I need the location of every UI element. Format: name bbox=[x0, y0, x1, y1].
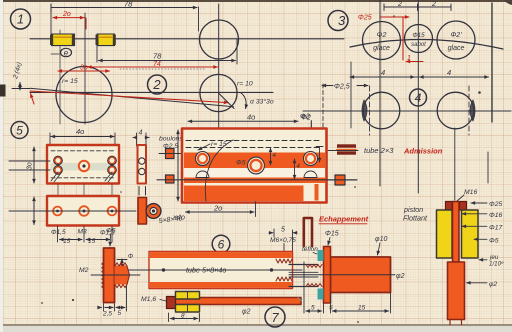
label r=15 with arrow bbox=[198, 141, 227, 150]
label phi15 bbox=[325, 231, 339, 246]
svg-text:3o: 3o bbox=[80, 65, 88, 72]
hatched pocket left bbox=[362, 100, 367, 121]
svg-text:15: 15 bbox=[358, 305, 366, 312]
cylinder surface arc bbox=[350, 39, 503, 49]
port hole center bbox=[248, 157, 265, 174]
radius construction curve bbox=[205, 140, 233, 201]
svg-text:φ10: φ10 bbox=[375, 236, 387, 243]
bore lines bbox=[289, 272, 318, 277]
svg-text:Φ2: Φ2 bbox=[377, 32, 387, 39]
svg-text:4: 4 bbox=[415, 91, 422, 105]
piston rod thin bbox=[453, 202, 460, 263]
label boulons phi2,5 bbox=[159, 136, 183, 151]
view label 6 bbox=[212, 235, 230, 259]
bracket side view bbox=[138, 198, 147, 225]
label phi2,5 bbox=[322, 84, 368, 91]
dashed axis x369 bbox=[369, 86, 371, 135]
dimension 4 bbox=[133, 130, 149, 147]
centerline vertical x218 bbox=[218, 4, 220, 135]
svg-text:Φ15: Φ15 bbox=[325, 231, 339, 238]
exhaust port section bbox=[304, 218, 312, 246]
thread zigzag top bbox=[276, 259, 292, 263]
construction vertical x60 bbox=[59, 30, 61, 124]
lower band bbox=[184, 178, 325, 184]
gland body bbox=[331, 257, 391, 293]
svg-text:Φ1,5: Φ1,5 bbox=[51, 229, 66, 236]
svg-text:Φ25: Φ25 bbox=[358, 15, 372, 22]
corner hatch right bbox=[105, 172, 115, 182]
label M16 leader bbox=[457, 189, 477, 201]
guide block top bbox=[176, 292, 200, 300]
rocker circle bbox=[200, 74, 237, 111]
thread zigzag bottom bbox=[276, 277, 292, 281]
small gap dimension left bbox=[12, 83, 30, 91]
svg-text:Φ: Φ bbox=[128, 254, 133, 260]
centerline screw bbox=[91, 274, 140, 276]
nut right bbox=[460, 202, 467, 211]
svg-text:2o: 2o bbox=[213, 204, 222, 213]
bar 5x8 end view bbox=[328, 175, 357, 185]
centerline bottom row bbox=[9, 210, 136, 212]
dimension 20 bbox=[186, 202, 256, 217]
label phi5 leader bbox=[106, 228, 116, 247]
adjusting screw body bbox=[104, 248, 115, 303]
svg-text:φ2: φ2 bbox=[242, 309, 251, 316]
thread top bbox=[306, 265, 322, 268]
bore bump right bbox=[304, 171, 317, 178]
bolt square upper bbox=[159, 149, 181, 159]
label piston flottant bbox=[403, 205, 428, 223]
rod end cap bbox=[167, 297, 176, 309]
svg-text:2: 2 bbox=[431, 1, 436, 8]
svg-text:1/10ᵉ: 1/10ᵉ bbox=[489, 261, 504, 268]
label phi25 bbox=[471, 201, 502, 208]
screws top plate bbox=[54, 156, 117, 174]
svg-text:5: 5 bbox=[16, 124, 23, 138]
svg-text:5: 5 bbox=[329, 305, 333, 312]
dimension 4-4 bbox=[350, 68, 489, 77]
extension line x51 bbox=[50, 7, 52, 34]
crank circle top bbox=[200, 20, 239, 59]
bore circle right bbox=[437, 92, 474, 129]
dims below plate bbox=[58, 226, 113, 242]
extension x97 bbox=[96, 46, 98, 62]
piston sleeve left yellow bbox=[437, 210, 453, 258]
piston rod thick bbox=[448, 262, 465, 320]
label Echappement red bbox=[319, 215, 369, 224]
svg-text:5: 5 bbox=[281, 227, 285, 234]
svg-text:2,5: 2,5 bbox=[102, 311, 112, 318]
scan stain left edge bbox=[0, 85, 6, 97]
dimension 2-2 top bbox=[384, 1, 451, 11]
label phi16 bbox=[462, 212, 502, 219]
tube 2x3 cross-section bbox=[337, 144, 356, 154]
svg-text:Echappement: Echappement bbox=[319, 215, 369, 224]
svg-text:r= 15: r= 15 bbox=[211, 141, 227, 148]
extension x237 bbox=[236, 39, 238, 64]
tangent line black bbox=[30, 88, 234, 107]
tube body bbox=[149, 252, 293, 289]
cylinder body rect bbox=[182, 129, 327, 203]
svg-text:Φ25: Φ25 bbox=[489, 201, 502, 208]
bottom plate bbox=[47, 196, 119, 226]
threaded stem bbox=[115, 263, 130, 288]
svg-text:boulons: boulons bbox=[159, 136, 183, 143]
svg-text:7: 7 bbox=[271, 310, 279, 325]
svg-text:Μ1,6: Μ1,6 bbox=[141, 296, 156, 303]
hatched pocket right bbox=[470, 100, 475, 121]
ink speck bbox=[478, 91, 481, 94]
block dividers bbox=[187, 292, 189, 313]
centerline horizontal view2 bbox=[30, 91, 273, 93]
jeu arrow bbox=[479, 259, 487, 261]
dimension 8 bbox=[169, 313, 200, 322]
svg-text:2o: 2o bbox=[62, 11, 71, 18]
svg-text:15: 15 bbox=[63, 238, 71, 245]
column sabot middle bbox=[405, 25, 433, 53]
svg-text:8: 8 bbox=[181, 313, 185, 320]
crankpin cylinder C1 bbox=[50, 34, 75, 46]
label phi17 bbox=[462, 225, 502, 232]
svg-text:2: 2 bbox=[152, 77, 161, 92]
vertical dim bottom plate bbox=[33, 197, 35, 225]
dotted construction line bbox=[120, 68, 205, 70]
dashed line lower bbox=[186, 147, 322, 149]
port hole right bbox=[304, 152, 318, 166]
dims 2,5 and 5 bbox=[98, 286, 127, 318]
svg-text:téflon: téflon bbox=[302, 246, 318, 253]
label phi2 bbox=[467, 281, 498, 288]
extension line x199 bbox=[198, 7, 200, 31]
view label 1 bbox=[11, 9, 31, 29]
svg-text:glace: glace bbox=[373, 45, 390, 52]
dashed line upper bbox=[186, 140, 322, 142]
svg-text:1: 1 bbox=[407, 55, 411, 62]
centerline admission bbox=[328, 150, 358, 152]
label jeu 1/10 bbox=[489, 254, 504, 268]
label M1,6 bbox=[141, 296, 166, 303]
svg-text:φ2: φ2 bbox=[396, 273, 405, 280]
centerline block long bbox=[157, 179, 357, 181]
svg-text:78: 78 bbox=[153, 52, 162, 61]
svg-text:15: 15 bbox=[88, 238, 96, 245]
svg-text:Μ16: Μ16 bbox=[464, 189, 477, 196]
plate side view top bbox=[138, 145, 147, 184]
centerline piston bbox=[454, 128, 456, 200]
svg-text:r= 10: r= 10 bbox=[237, 81, 253, 88]
guide block bottom bbox=[176, 305, 200, 313]
svg-text:×4o: ×4o bbox=[173, 215, 185, 222]
hole depth dim bbox=[316, 147, 323, 163]
small dim x294 bbox=[295, 159, 301, 179]
svg-text:Φ2,5: Φ2,5 bbox=[334, 84, 350, 91]
label teflon bbox=[302, 246, 318, 254]
label phi5 bbox=[474, 238, 499, 245]
svg-text:Φ2': Φ2' bbox=[450, 32, 462, 39]
teflon seal top bbox=[318, 250, 324, 261]
svg-text:5: 5 bbox=[118, 310, 122, 317]
rod tip bbox=[450, 320, 462, 325]
base plate orange bbox=[184, 186, 304, 202]
labels phi1,5 M3 phi1,5 bbox=[51, 229, 115, 246]
bore strip bbox=[184, 168, 325, 178]
svg-text:tube 5×8×4o: tube 5×8×4o bbox=[186, 266, 226, 275]
svg-text:Φ5: Φ5 bbox=[489, 238, 499, 245]
dimension 40 block top bbox=[188, 113, 298, 122]
exhaust notch bbox=[315, 184, 319, 201]
svg-text:glace: glace bbox=[448, 45, 465, 52]
top plate bbox=[47, 145, 119, 184]
crank center vertical bbox=[84, 13, 86, 124]
bore bump left bbox=[196, 171, 209, 178]
label phi10 bbox=[375, 236, 387, 255]
port hole left bbox=[196, 152, 210, 166]
centerline crankshaft bbox=[30, 38, 344, 40]
piston sleeve right yellow bbox=[462, 210, 479, 258]
svg-text:Φ5: Φ5 bbox=[236, 160, 246, 167]
svg-text:2: 2 bbox=[397, 1, 402, 8]
svg-text:4o: 4o bbox=[76, 127, 84, 136]
label e bbox=[51, 48, 72, 57]
dimension 74 red bbox=[88, 61, 218, 68]
thread bottom bbox=[306, 284, 322, 287]
gland flange bbox=[324, 247, 331, 304]
tube walls left bbox=[289, 265, 318, 287]
radius line bbox=[219, 93, 235, 109]
svg-text:6: 6 bbox=[218, 238, 225, 252]
svg-text:4: 4 bbox=[139, 130, 143, 137]
vertical x488 bbox=[487, 152, 489, 183]
long vertical x492 bbox=[491, 3, 493, 122]
dimension 30 red diameter bbox=[58, 65, 110, 72]
screws bottom plate bbox=[53, 206, 116, 216]
centerlines rows bbox=[9, 161, 50, 170]
svg-text:74: 74 bbox=[153, 61, 161, 68]
svg-text:Φ16: Φ16 bbox=[489, 212, 502, 219]
column glace left bbox=[363, 22, 401, 60]
dimension 78 second bbox=[99, 52, 236, 61]
svg-text:4o: 4o bbox=[247, 113, 255, 122]
svg-text:Φ17: Φ17 bbox=[489, 225, 502, 232]
vertical dim left of block bbox=[173, 130, 185, 222]
corner smudge top right bbox=[504, 0, 512, 5]
svg-text:3: 3 bbox=[338, 13, 346, 28]
svg-text:2 (4x): 2 (4x) bbox=[12, 62, 23, 81]
crankpin cylinder C2 bbox=[96, 34, 116, 46]
label phi2 with leader bbox=[301, 115, 311, 152]
long vertical x380 bbox=[379, 0, 381, 186]
bolt square lower bbox=[166, 175, 175, 183]
svg-text:3o: 3o bbox=[27, 162, 34, 170]
svg-text:Flottant: Flottant bbox=[403, 214, 428, 223]
centerline nozzle bbox=[289, 274, 395, 276]
view label 4 bbox=[410, 89, 427, 106]
svg-text:tube 2×3: tube 2×3 bbox=[364, 146, 394, 155]
svg-text:Φ5: Φ5 bbox=[106, 228, 116, 235]
svg-text:r= 15: r= 15 bbox=[62, 78, 78, 85]
teflon seal bottom bbox=[318, 289, 324, 300]
dashed axis x469 bbox=[468, 86, 470, 135]
tangent line red bbox=[30, 91, 228, 103]
svg-text:5: 5 bbox=[311, 305, 315, 312]
svg-text:78: 78 bbox=[124, 0, 133, 9]
svg-text:4: 4 bbox=[447, 68, 451, 77]
svg-text:Μ2: Μ2 bbox=[79, 267, 89, 274]
paper specks bbox=[41, 302, 43, 304]
extension x351 bbox=[350, 62, 352, 128]
centerline tube bbox=[115, 269, 302, 271]
dims 5 5 15 bbox=[304, 262, 391, 313]
small dim x270 bbox=[271, 148, 277, 165]
svg-text:Φ2: Φ2 bbox=[300, 114, 310, 121]
dashed axis x323 bbox=[322, 84, 324, 127]
view label 7 bbox=[265, 307, 285, 327]
svg-text:φ2: φ2 bbox=[489, 281, 497, 288]
long vertical x418 bbox=[417, 0, 419, 193]
svg-text:α 33°3o: α 33°3o bbox=[250, 98, 274, 106]
bearing ring bbox=[146, 204, 161, 219]
column glace right bbox=[437, 21, 475, 59]
view label 3 bbox=[328, 11, 348, 31]
thread left edge bbox=[102, 262, 104, 289]
marker dots bbox=[162, 268, 165, 271]
wall dims left bbox=[117, 254, 133, 281]
view label 5 bbox=[11, 122, 28, 139]
svg-text:Admission: Admission bbox=[403, 147, 443, 156]
view label 2 bbox=[148, 75, 167, 94]
red label phi25 bbox=[358, 15, 423, 63]
svg-text:Μ3: Μ3 bbox=[78, 229, 87, 236]
svg-text:4: 4 bbox=[381, 68, 385, 77]
svg-text:e: e bbox=[64, 49, 69, 58]
dimension 20 red bbox=[53, 11, 86, 29]
dimension 5 thread bbox=[269, 227, 297, 252]
bore circle left bbox=[363, 92, 400, 129]
angle arc bbox=[241, 93, 247, 109]
dimension 78 top bbox=[51, 0, 197, 12]
dimension 40 bbox=[50, 127, 115, 146]
dimension 30 vertical bbox=[27, 147, 35, 183]
nut left bbox=[446, 202, 453, 211]
corner hatch left bbox=[51, 172, 61, 182]
piston rod bbox=[172, 298, 302, 305]
gap dashes bbox=[139, 187, 146, 196]
screw axis verticals bbox=[58, 184, 112, 196]
crank circle bbox=[56, 67, 112, 123]
centerline view4 bbox=[303, 110, 511, 112]
steam chest band bbox=[184, 153, 325, 169]
red pointer arrow left bbox=[31, 94, 35, 105]
svg-text:1: 1 bbox=[17, 12, 24, 27]
label phi2 hole leader bbox=[300, 114, 311, 152]
